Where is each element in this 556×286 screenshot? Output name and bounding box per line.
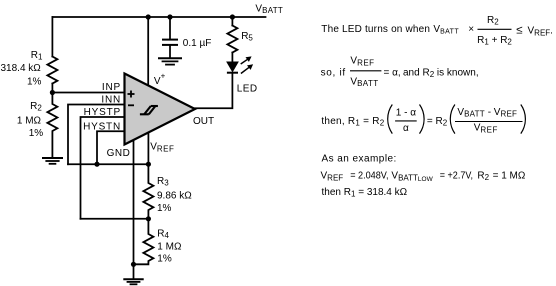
formula text block (321, 15, 553, 199)
node cap rail (167, 14, 172, 19)
svg-text:= 2.048V,: = 2.048V, (350, 171, 388, 182)
svg-text:×: × (468, 24, 474, 35)
svg-text:≤: ≤ (516, 25, 522, 37)
wire INN (68, 105, 126, 165)
svg-text:= α,: = α, (384, 67, 401, 78)
wire HYSTP (81, 117, 127, 219)
node R4/GND (131, 262, 136, 267)
svg-text:INP: INP (102, 82, 121, 93)
svg-text:1%: 1% (29, 128, 44, 139)
ground below R2 (43, 157, 62, 159)
svg-text:R4: R4 (157, 229, 169, 241)
svg-text:The LED turns on when: The LED turns on when (321, 24, 430, 35)
svg-text:LED: LED (237, 84, 258, 95)
node V+ rail (146, 14, 151, 19)
svg-text:R1: R1 (31, 50, 43, 62)
svg-text:+: + (161, 72, 166, 81)
svg-text:VBATT: VBATT (255, 4, 283, 16)
svg-text:VBATT: VBATT (350, 76, 378, 88)
svg-text:VREF: VREF (150, 142, 174, 154)
svg-text:R1 + R2: R1 + R2 (477, 35, 512, 47)
resistor R4 (134, 219, 154, 264)
resistor R1 (47, 57, 57, 84)
svg-text:1%: 1% (157, 203, 172, 214)
wire LED cathode to OUT (195, 73, 232, 108)
wire VBATT top rail (52, 16, 265, 18)
svg-text:0.1 µF: 0.1 µF (183, 38, 212, 49)
svg-text:= +2.7V,: = +2.7V, (440, 171, 473, 182)
svg-text:318.4 kΩ: 318.4 kΩ (1, 63, 42, 74)
svg-text:1%: 1% (27, 77, 42, 88)
capacitor C 0.1uF plates (163, 39, 177, 41)
wire V+ lead (147, 17, 149, 87)
ground below capacitor (159, 57, 181, 59)
node R5 rail (230, 14, 235, 19)
svg-text:1 MΩ: 1 MΩ (157, 242, 182, 253)
hysteresis symbol (140, 106, 158, 114)
node R3/R4/HYSTP (146, 216, 151, 221)
wire R5 top lead (231, 17, 233, 26)
svg-text:then, R1 = R2: then, R1 = R2 (321, 116, 384, 128)
wire capacitor bottom lead (169, 46, 171, 58)
svg-text:R3: R3 (157, 176, 169, 188)
svg-text:R2: R2 (487, 15, 499, 27)
svg-text:VREF: VREF (474, 123, 498, 135)
svg-text:= R2: = R2 (427, 116, 448, 128)
op-amp comparator U1 (125, 74, 196, 145)
resistor R3 (143, 164, 153, 219)
wire VREF pin lead (147, 133, 149, 165)
svg-text:HYSTN: HYSTN (83, 122, 121, 133)
svg-text:and R2 is known,: and R2 is known, (403, 67, 479, 79)
wire HYSTN (97, 131, 126, 164)
svg-text:so, if: so, if (321, 67, 346, 78)
resistor R2 (47, 93, 57, 158)
svg-text:As an example:: As an example: (322, 154, 397, 165)
wire R1 bottom lead (51, 84, 53, 93)
svg-text:VREF: VREF (321, 171, 344, 183)
node VREF/R3 (146, 162, 151, 167)
svg-text:GND: GND (107, 148, 131, 159)
LED D1 (227, 62, 238, 72)
node HYSTN/VREF (94, 162, 99, 167)
wire INP (52, 92, 126, 94)
svg-text:VBATT: VBATT (433, 24, 459, 36)
svg-text:1 MΩ: 1 MΩ (17, 116, 42, 127)
svg-text:= 1 MΩ: = 1 MΩ (493, 171, 526, 182)
svg-text:VREF.: VREF. (528, 26, 553, 38)
wire VREF net (68, 163, 148, 165)
wire hysteresis tap (81, 218, 149, 220)
resistor R5 (227, 26, 237, 53)
ground bottom (133, 264, 135, 278)
plus input mark (128, 91, 135, 106)
wire R5 to LED (231, 53, 233, 63)
wire capacitor top lead (169, 17, 171, 39)
svg-text:9.86 kΩ: 9.86 kΩ (157, 191, 192, 202)
svg-text:then R1 = 318.4 kΩ: then R1 = 318.4 kΩ (322, 187, 408, 199)
svg-text:INN: INN (101, 95, 121, 106)
svg-text:R2: R2 (30, 101, 42, 113)
svg-text:α: α (403, 123, 409, 134)
svg-text:OUT: OUT (193, 116, 214, 127)
svg-text:VBATTLOW: VBATTLOW (391, 171, 433, 183)
wire GND pin lead (133, 140, 135, 264)
LED arrows (241, 56, 253, 73)
svg-text:1 - α: 1 - α (396, 107, 416, 118)
svg-text:HYSTP: HYSTP (84, 107, 121, 118)
wire R1 top lead (51, 17, 53, 57)
svg-text:R2: R2 (477, 171, 489, 183)
svg-text:VREF: VREF (350, 56, 374, 68)
minus input mark (128, 104, 134, 106)
svg-text:R5: R5 (241, 31, 253, 43)
node R1/R2/INP (50, 90, 55, 95)
svg-text:1%: 1% (157, 254, 172, 265)
schematic labels (1, 4, 284, 265)
svg-text:VBATT - VREF: VBATT - VREF (457, 107, 517, 119)
